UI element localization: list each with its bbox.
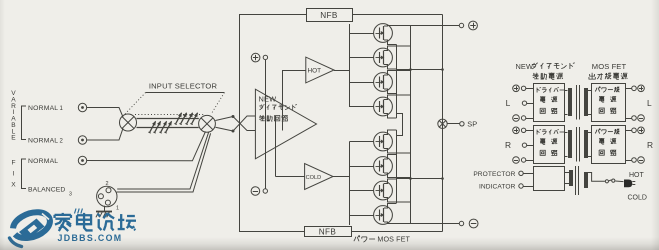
svg-text:F: F <box>11 159 15 166</box>
svg-text:NEW: NEW <box>259 95 277 104</box>
svg-text:2: 2 <box>105 181 108 187</box>
svg-text:PROTECTOR: PROTECTOR <box>473 171 515 178</box>
svg-text:NORMAL: NORMAL <box>28 158 58 165</box>
svg-text:NFB: NFB <box>319 228 337 237</box>
svg-text:R: R <box>505 140 511 150</box>
svg-text:L: L <box>647 98 652 108</box>
svg-text:SP: SP <box>467 120 477 129</box>
svg-text:BALANCED: BALANCED <box>28 187 65 194</box>
svg-text:E: E <box>11 135 16 142</box>
svg-text:NEW: NEW <box>516 62 534 71</box>
svg-text:L: L <box>506 98 511 108</box>
svg-text:JDBBS.COM: JDBBS.COM <box>58 233 123 243</box>
svg-text:INPUT SELECTOR: INPUT SELECTOR <box>149 81 218 90</box>
svg-text:HOT: HOT <box>629 172 645 179</box>
svg-text:NFB: NFB <box>320 11 338 20</box>
svg-text:I: I <box>13 170 15 177</box>
svg-text:COLD: COLD <box>306 175 322 181</box>
svg-text:MOS FET: MOS FET <box>592 62 627 71</box>
svg-text:X: X <box>11 181 16 188</box>
svg-text:1: 1 <box>116 206 119 212</box>
svg-text:INDICATOR: INDICATOR <box>479 184 516 191</box>
svg-text:COLD: COLD <box>628 195 647 202</box>
svg-text:NORMAL: NORMAL <box>28 105 58 112</box>
svg-text:R: R <box>647 140 653 150</box>
svg-text:3: 3 <box>69 192 72 198</box>
svg-text:NORMAL: NORMAL <box>28 138 58 145</box>
svg-text:MOS FET: MOS FET <box>377 234 410 243</box>
svg-text:HOT: HOT <box>308 68 322 75</box>
